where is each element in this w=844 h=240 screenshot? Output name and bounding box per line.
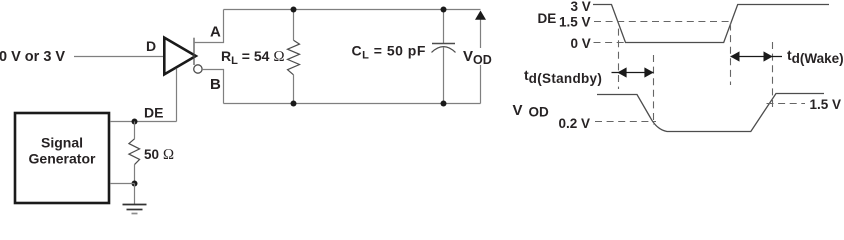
- output bar: [193, 38, 195, 65]
- resistor RL: [293, 10, 295, 41]
- dashed 1.5 V level right: [767, 103, 806, 105]
- svg-text:B: B: [210, 76, 221, 93]
- svg-text:A: A: [210, 24, 221, 41]
- dashed vertical DE fall crossing: [618, 25, 620, 89]
- junction dot bottom-left: [291, 101, 297, 107]
- dashed 1.5 V level DE: [594, 21, 730, 23]
- svg-text:3 V: 3 V: [571, 0, 591, 14]
- wire DE from generator: [110, 121, 177, 123]
- svg-text:Generator: Generator: [29, 151, 96, 167]
- svg-text:DE: DE: [538, 11, 557, 26]
- resistor 50 ohm: [134, 122, 136, 139]
- arrow td(Wake): [731, 56, 783, 58]
- junction node DE: [132, 119, 138, 125]
- junction node resistor bottom: [132, 181, 138, 187]
- capacitor CL: [443, 10, 445, 44]
- wire enable to driver: [176, 69, 178, 122]
- svg-text:1.5 V: 1.5 V: [810, 97, 842, 112]
- DE waveform: [593, 5, 829, 43]
- wire top rail: [224, 9, 481, 11]
- wire output B: [202, 70, 223, 104]
- junction dot bottom-right: [441, 101, 447, 107]
- svg-text:0 V: 0 V: [571, 36, 591, 51]
- svg-text:0 V or 3 V: 0 V or 3 V: [0, 49, 65, 65]
- svg-text:50 Ω: 50 Ω: [144, 147, 174, 163]
- junction dot top-left: [291, 7, 297, 13]
- arrow td(Standby): [612, 72, 654, 74]
- dashed vertical VOD 1.5V crossing: [772, 42, 774, 110]
- svg-text:1.5 V: 1.5 V: [559, 15, 591, 30]
- signal generator box: [15, 113, 109, 203]
- svg-text:Signal: Signal: [41, 135, 83, 151]
- dashed 0.2 V level: [595, 121, 656, 123]
- wire output A: [194, 10, 224, 43]
- svg-text:DE: DE: [144, 105, 163, 121]
- dashed vertical DE rise crossing: [730, 24, 732, 86]
- label VOD: [462, 48, 494, 65]
- driver U1: [164, 38, 196, 75]
- wire bottom rail: [224, 103, 481, 105]
- dashed 0 V level: [594, 42, 625, 44]
- VOD waveform: [597, 94, 824, 132]
- wire generator bottom: [110, 183, 135, 185]
- ground: [134, 184, 136, 205]
- svg-text:0.2 V: 0.2 V: [559, 116, 591, 131]
- dashed vertical VOD 0.2V crossing: [653, 55, 655, 125]
- VOD measurement arrow: [480, 12, 482, 104]
- junction dot top-right: [441, 7, 447, 13]
- svg-text:D: D: [146, 38, 156, 54]
- svg-text:VOD: VOD: [513, 102, 550, 120]
- wire D input: [74, 56, 164, 58]
- inversion bubble: [194, 65, 202, 73]
